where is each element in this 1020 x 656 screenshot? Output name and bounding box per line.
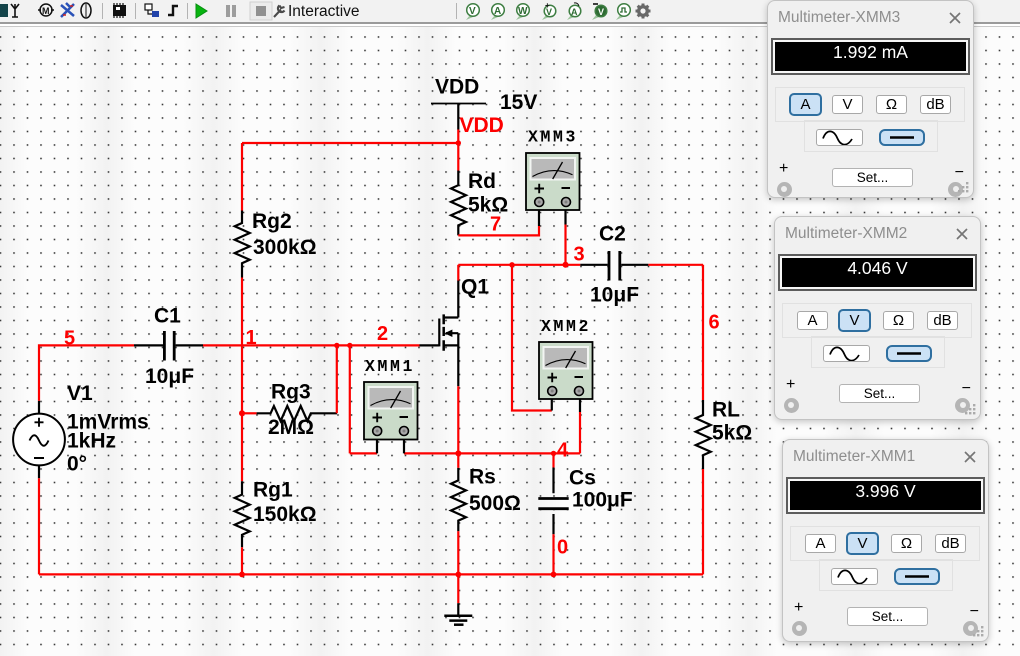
wire RL bottom — [702, 469, 704, 574]
resistor Rg3 2M — [257, 406, 337, 421]
wire node 7 — [458, 226, 539, 235]
svg-text:C2: C2 — [599, 222, 626, 245]
power symbol VDD 15V — [431, 104, 486, 130]
ground symbol — [444, 603, 472, 625]
instrument window Multimeter-XMM1 — [782, 439, 989, 642]
wire XMM2 plus branch — [512, 265, 552, 411]
wire Cs top — [552, 453, 554, 467]
svg-text:4: 4 — [557, 440, 569, 462]
svg-text:500Ω: 500Ω — [469, 492, 521, 515]
svg-text:10μF: 10μF — [590, 284, 639, 307]
svg-text:A: A — [494, 6, 501, 17]
capacitor Cs 100uF — [538, 468, 568, 535]
svg-text:5kΩ: 5kΩ — [712, 421, 752, 444]
capacitor C1 10uF — [134, 331, 203, 361]
resistor Rs 500 — [451, 468, 466, 531]
resistor Rg2 300k — [235, 211, 250, 278]
svg-text:VDD: VDD — [460, 114, 504, 137]
svg-text:7: 7 — [490, 214, 501, 236]
wire node 4 rail — [350, 452, 580, 454]
svg-text:15V: 15V — [500, 91, 537, 114]
capacitor C2 10uF — [580, 251, 648, 281]
svg-text:Q1: Q1 — [461, 275, 489, 298]
svg-text:C1: C1 — [154, 304, 181, 327]
wire XMM3 minus to node 3 — [564, 225, 566, 265]
svg-text:0°: 0° — [67, 453, 87, 476]
wire VDD rail — [242, 130, 458, 171]
svg-text:100μF: 100μF — [572, 489, 633, 512]
wire XMM2 minus branch — [579, 412, 581, 453]
wire node 3 — [458, 264, 703, 266]
instrument window Multimeter-XMM2 — [774, 216, 981, 420]
svg-text:0: 0 — [557, 537, 568, 559]
wire Rg2 to Rg1 — [241, 278, 243, 482]
svg-text:V: V — [469, 6, 476, 17]
transistor Q1 MOSFET — [420, 281, 459, 387]
wire node 0 — [552, 534, 554, 574]
junction node 4 right — [551, 451, 556, 456]
svg-text:V: V — [598, 7, 604, 17]
svg-text:W: W — [518, 6, 528, 17]
junction rail Rs — [455, 572, 461, 578]
junction node 4 — [455, 450, 461, 456]
svg-text:V1: V1 — [67, 382, 93, 405]
wire node 1 to gate — [203, 344, 420, 346]
svg-text:XMM2: XMM2 — [541, 317, 591, 336]
svg-text:5: 5 — [64, 328, 75, 350]
multimeter icon XMM3 — [526, 153, 580, 226]
svg-text:2: 2 — [377, 323, 388, 345]
wire Rs bottom — [457, 531, 459, 574]
svg-text:XMM1: XMM1 — [365, 357, 415, 376]
junction rail Cs — [551, 572, 557, 578]
wire node 5 / V1 top — [39, 345, 134, 400]
resistor RL 5k — [696, 400, 711, 469]
junction node 2 branch — [347, 343, 352, 348]
wire ground stub — [457, 574, 459, 603]
svg-text:1: 1 — [246, 327, 257, 349]
wire XMM1 plus branch — [349, 345, 351, 453]
wire Rs top — [457, 453, 459, 467]
resistor Rd 5k — [451, 171, 466, 236]
wire Rg3 right to node 2 — [336, 345, 338, 413]
svg-text:Rd: Rd — [468, 170, 496, 193]
resistor Rg1 150k — [235, 481, 250, 547]
junction node 1 branch — [334, 343, 339, 348]
toolbar — [0, 0, 1020, 22]
svg-text:2MΩ: 2MΩ — [268, 416, 314, 439]
svg-text:3: 3 — [574, 243, 585, 265]
wire V1 bottom — [38, 478, 40, 574]
svg-text:150kΩ: 150kΩ — [253, 503, 317, 526]
junction VDD node — [456, 140, 461, 145]
junction node 3 — [563, 262, 569, 268]
wire ground rail — [39, 573, 703, 575]
svg-text:6: 6 — [709, 312, 720, 334]
svg-text:A: A — [571, 7, 578, 17]
svg-text:Rg1: Rg1 — [253, 479, 293, 502]
junction Rg3 left — [239, 410, 245, 416]
wire Rg2 top — [241, 143, 243, 211]
instrument window Multimeter-XMM3 — [767, 0, 974, 198]
svg-text:300kΩ: 300kΩ — [253, 236, 317, 259]
svg-text:Rg3: Rg3 — [271, 381, 311, 404]
svg-text:XMM3: XMM3 — [528, 128, 578, 147]
svg-text:Rg2: Rg2 — [252, 210, 292, 233]
svg-text:M: M — [42, 6, 50, 16]
svg-text:RL: RL — [712, 399, 740, 422]
junction node 3 left — [509, 262, 514, 267]
wire node 6 — [702, 265, 704, 400]
wire Rg1 bottom — [241, 547, 243, 574]
svg-text:Rs: Rs — [469, 465, 496, 488]
wire source to node 4 — [457, 386, 459, 453]
multimeter icon XMM1 — [364, 382, 418, 453]
svg-text:5kΩ: 5kΩ — [468, 193, 508, 216]
svg-text:VDD: VDD — [435, 75, 479, 98]
source V1 — [13, 401, 65, 479]
wire drain stub — [457, 265, 459, 281]
junction rail Rg1 — [239, 572, 245, 578]
wire Rg3 stub — [242, 412, 257, 414]
svg-text:10μF: 10μF — [145, 365, 194, 388]
multimeter icon XMM2 — [539, 342, 593, 412]
svg-text:1kHz: 1kHz — [67, 430, 116, 453]
svg-text:+: + — [545, 1, 550, 10]
svg-text:Cs: Cs — [569, 466, 596, 489]
